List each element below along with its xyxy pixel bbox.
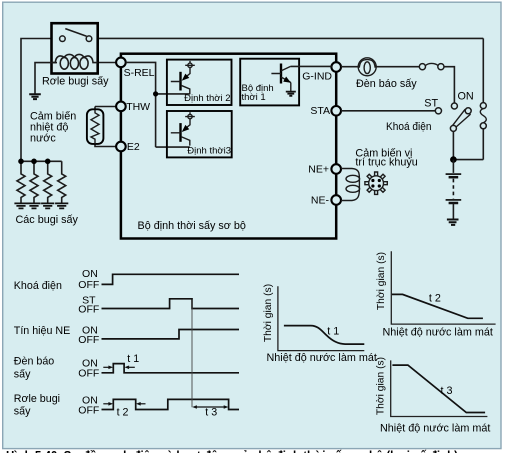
svg-text:THW: THW	[126, 101, 150, 113]
svg-text:OFF: OFF	[78, 404, 99, 416]
svg-text:Khoá điện: Khoá điện	[14, 280, 62, 292]
svg-text:OFF: OFF	[78, 334, 99, 346]
svg-text:Thời gian (s): Thời gian (s)	[376, 252, 387, 310]
svg-text:t 3: t 3	[441, 385, 453, 397]
svg-text:t 1: t 1	[327, 326, 339, 338]
svg-text:OFF: OFF	[78, 367, 99, 379]
svg-text:trí trục khuỷu: trí trục khuỷu	[355, 156, 417, 168]
svg-text:Nhiệt độ nước làm mát: Nhiệt độ nước làm mát	[380, 423, 490, 435]
svg-text:STA: STA	[310, 105, 330, 117]
svg-text:S-REL: S-REL	[124, 67, 155, 79]
svg-text:Định thời 2: Định thời 2	[184, 93, 230, 104]
svg-text:Đèn báo: Đèn báo	[14, 355, 54, 367]
svg-text:t 2: t 2	[117, 407, 129, 419]
svg-text:ON: ON	[458, 91, 474, 103]
svg-text:ST: ST	[424, 97, 438, 109]
svg-text:t 3: t 3	[205, 407, 217, 419]
svg-text:Nhiệt độ nước làm mát: Nhiệt độ nước làm mát	[383, 327, 493, 339]
svg-text:NE+: NE+	[308, 164, 329, 176]
svg-text:t 2: t 2	[429, 292, 441, 304]
svg-text:nước: nước	[30, 133, 56, 145]
svg-text:Tín hiệu NE: Tín hiệu NE	[14, 325, 70, 337]
svg-text:G-IND: G-IND	[302, 70, 332, 82]
svg-text:Nhiệt độ nước làm mát: Nhiệt độ nước làm mát	[267, 352, 377, 364]
svg-text:sấy: sấy	[14, 368, 31, 380]
svg-text:Đèn báo sấy: Đèn báo sấy	[356, 78, 417, 90]
svg-text:Bộ định thời sấy sơ bộ: Bộ định thời sấy sơ bộ	[138, 220, 246, 232]
svg-text:Hình 5.40. Sơ đồ mạch điện và: Hình 5.40. Sơ đồ mạch điện và hoạt động …	[6, 448, 458, 453]
svg-text:Khoá điện: Khoá điện	[386, 121, 432, 133]
svg-text:OFF: OFF	[78, 303, 99, 315]
svg-text:OFF: OFF	[78, 279, 99, 291]
svg-text:Định thời3: Định thời3	[187, 145, 231, 156]
svg-text:Rơle bugi: Rơle bugi	[14, 393, 60, 405]
svg-text:Rơle bugi sấy: Rơle bugi sấy	[42, 76, 109, 88]
svg-text:thời 1: thời 1	[242, 92, 266, 103]
svg-text:sấy: sấy	[14, 405, 31, 417]
svg-text:t 1: t 1	[127, 353, 139, 365]
svg-text:Thời gian (s): Thời gian (s)	[376, 357, 387, 415]
svg-text:Thời gian (s): Thời gian (s)	[263, 284, 274, 342]
svg-text:NE-: NE-	[311, 195, 330, 207]
svg-text:Các bugi sấy: Các bugi sấy	[16, 214, 79, 226]
svg-text:E2: E2	[127, 141, 140, 153]
